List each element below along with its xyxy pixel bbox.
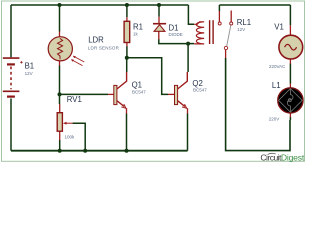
svg-text:D1: D1 (169, 23, 179, 32)
svg-text:12V: 12V (237, 27, 245, 32)
LDR sensor (48, 32, 84, 66)
svg-text:CircuitDigest: CircuitDigest (260, 153, 304, 163)
svg-text:LDR: LDR (88, 35, 104, 44)
svg-text:DIODE: DIODE (169, 32, 183, 37)
wire R1 top (126, 5, 128, 17)
node dot RV1 bottom rail (58, 149, 62, 153)
relay RL1 contacts (218, 11, 233, 59)
CircuitDigest logo (260, 153, 304, 163)
wire R1 bottom to node B (126, 46, 128, 58)
wire node A to RV1 (59, 94, 61, 104)
node dot D1 top (157, 3, 161, 7)
node dot wiper rail (83, 149, 87, 153)
wire RV1 wiper to rail (73, 123, 86, 151)
svg-text:RL1: RL1 (237, 18, 251, 27)
wire Q1 emitter to rail (126, 114, 128, 151)
wire relay contact up (218, 5, 220, 11)
wire RV1 bottom (59, 140, 61, 151)
svg-text:220VAC: 220VAC (269, 64, 286, 69)
transistor Q1 (108, 72, 127, 114)
wire relay pole to L1 bottom (226, 58, 290, 151)
transistor Q2 (168, 72, 188, 114)
svg-text:V1: V1 (274, 23, 284, 32)
battery B1 (3, 58, 23, 97)
svg-text:RV1: RV1 (67, 95, 82, 104)
svg-text:B1: B1 (25, 62, 35, 71)
relay RL1 coil (194, 20, 213, 44)
wire node A to Q1 base (60, 93, 109, 95)
node dot R1 top (125, 3, 129, 7)
wire L1 bottom (289, 117, 291, 120)
wire top rail right (contact to V1) (219, 4, 290, 6)
AC source V1 (279, 25, 303, 63)
node dot coil bottom (186, 42, 190, 46)
svg-text:BC547: BC547 (193, 88, 207, 93)
svg-text:L1: L1 (272, 81, 281, 90)
wire D1 top (158, 5, 160, 17)
wire LDR top (59, 5, 61, 32)
wire node B to Q2 base (127, 58, 168, 95)
wire coil bottom (188, 43, 194, 45)
wire V1 to L1 (289, 64, 291, 84)
wire Q1 collector (126, 58, 128, 72)
svg-text:BC547: BC547 (132, 89, 146, 94)
wire bottom rail (11, 150, 188, 152)
lamp L1 (278, 84, 303, 118)
wire battery bottom (10, 99, 12, 151)
wire top rail to relay coil (188, 5, 194, 24)
node B dot (125, 56, 129, 60)
svg-text:R1: R1 (133, 22, 143, 31)
wire Q2 emitter to rail end (187, 114, 189, 151)
node dot LDR top (58, 3, 62, 7)
potentiometer RV1 (57, 104, 73, 140)
node A dot (58, 92, 62, 96)
wire LDR bottom to node A (59, 66, 61, 95)
resistor R1 (124, 17, 130, 46)
wire battery top (10, 5, 12, 57)
wire Q2 collector (187, 44, 189, 72)
svg-text:12V: 12V (25, 71, 33, 76)
svg-text:1k: 1k (133, 32, 139, 37)
wire D1 anode to coil node (159, 39, 188, 44)
svg-text:LDR SENSOR: LDR SENSOR (88, 46, 120, 51)
svg-text:100k: 100k (65, 134, 76, 139)
diode D1 (153, 17, 166, 40)
node dot Q1 emitter rail (125, 149, 129, 153)
svg-text:220V: 220V (269, 117, 280, 122)
wire top rail left (11, 4, 188, 6)
svg-text:Q1: Q1 (132, 81, 142, 90)
wire V1 top (289, 5, 291, 25)
